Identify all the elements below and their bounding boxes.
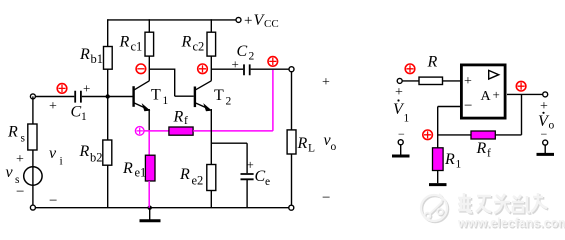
svg-text:b1: b1 (91, 52, 104, 66)
svg-text:R: R (476, 140, 487, 157)
label plus Ce (247, 157, 254, 172)
svg-text:−: − (464, 98, 472, 114)
svg-text:1: 1 (81, 111, 87, 123)
svg-text:L: L (308, 143, 315, 155)
svg-text:+: + (464, 74, 472, 89)
svg-text:R: R (181, 34, 192, 51)
node VCC terminal (236, 17, 241, 22)
label plus V1 (395, 85, 403, 100)
wire top supply rail (108, 19, 236, 21)
svg-text:R: R (119, 34, 130, 51)
wire Rb1 branch top (107, 19, 109, 46)
wire Rc1 bottom to T1 collector (148, 56, 150, 81)
label Rs (7, 124, 26, 145)
svg-text:f: f (487, 148, 491, 160)
wire R1 to ground (437, 171, 439, 184)
svg-text:www.elecfans.com: www.elecfans.com (457, 216, 565, 230)
label Rc2 (181, 34, 205, 54)
svg-text:−: − (322, 190, 330, 206)
wire input drop to Rs (32, 96, 34, 124)
svg-text:c2: c2 (193, 40, 205, 54)
svg-text:s: s (21, 133, 26, 145)
svg-text:+: + (16, 152, 24, 167)
resistor RL (287, 130, 296, 154)
source vs circle (24, 167, 42, 185)
svg-text:−: − (541, 127, 548, 141)
svg-text:o: o (331, 141, 337, 153)
resistor Rf right (magenta) (471, 131, 495, 139)
resistor Rs (28, 124, 37, 150)
wire minus input to junction (438, 107, 460, 148)
transistor T1 (134, 81, 150, 111)
label R1 (444, 151, 462, 171)
svg-text:+: + (247, 157, 254, 172)
wire T1 emitter down (148, 109, 150, 131)
svg-text:v: v (49, 145, 57, 162)
wire Rc2 bottom to T2 collector (210, 56, 212, 81)
svg-text:b2: b2 (90, 151, 103, 165)
wire Rf to output (495, 94, 521, 134)
svg-text:c1: c1 (131, 40, 143, 54)
label plus op-amp input (464, 74, 472, 89)
wire Rc2 branch top (210, 19, 212, 32)
ground symbol left (140, 208, 161, 221)
label C1 (71, 104, 88, 124)
ground symbol R1 (429, 183, 447, 186)
wire Ce to rail (246, 179, 248, 207)
wire output line from collector to C2 (211, 68, 243, 70)
wire Rf to output node (magenta) (193, 70, 273, 131)
resistor Rc1 (145, 32, 154, 56)
svg-text:+: + (540, 99, 548, 114)
wire C2 to output terminal (251, 68, 289, 70)
resistor Rc2 (207, 32, 216, 56)
wire feedback emitter to Rf (magenta) (144, 130, 169, 132)
node input terminal (30, 94, 35, 99)
svg-text:+: + (232, 57, 239, 72)
svg-text:R: R (79, 143, 90, 160)
wire Re2 top segment (211, 142, 247, 144)
label Rf left (magenta) (173, 109, 189, 128)
op-amp triangle symbol (489, 70, 499, 79)
annotation phase plus at R1 junction (423, 130, 433, 140)
svg-text:+: + (322, 75, 330, 90)
resistor Re1 (magenta) (145, 155, 155, 181)
label Vo (538, 112, 555, 132)
resistor Rf left (magenta) (169, 127, 193, 135)
capacitor C2 (244, 64, 250, 75)
capacitor Ce (241, 174, 254, 179)
label plus vs (16, 152, 24, 167)
node Vo terminal (543, 92, 548, 97)
label minus op-amp input (464, 98, 472, 114)
wire op-amp output (507, 93, 543, 95)
label plus C1 right (83, 81, 90, 96)
svg-text:o: o (549, 120, 555, 132)
svg-text:−: − (49, 193, 57, 209)
wire V1 to R (402, 80, 419, 82)
label vs (6, 164, 21, 186)
svg-text:−: − (16, 184, 24, 200)
node output bottom terminal (289, 205, 294, 210)
watermark chinese text (458, 193, 548, 214)
wire T2 emitter down to rail (210, 109, 212, 208)
svg-text:v: v (6, 164, 14, 181)
svg-text:2: 2 (226, 96, 232, 108)
node output terminal (289, 67, 294, 72)
node base junction dot (106, 94, 110, 98)
svg-text:R: R (297, 135, 308, 152)
node V1 bottom terminal (398, 140, 403, 145)
svg-text:C: C (71, 104, 82, 121)
svg-text:CC: CC (264, 18, 279, 30)
label plus input (49, 99, 57, 114)
resistor Rb2 (103, 140, 112, 165)
svg-text:1: 1 (404, 113, 410, 125)
wire Ce branch top (246, 143, 248, 173)
label RL (297, 135, 316, 155)
wire RL branch (291, 72, 293, 130)
label V1 (393, 99, 410, 124)
annotation phase plus at T2 collector (198, 64, 208, 74)
label T2 (214, 87, 232, 108)
svg-text:e1: e1 (135, 166, 147, 180)
wire R to op-amp (443, 80, 461, 82)
label C2 (237, 43, 255, 63)
svg-text:A: A (481, 89, 492, 104)
label Rb1 (79, 46, 103, 66)
label plus op-amp output (493, 87, 500, 102)
resistor R (419, 77, 443, 84)
svg-text:1: 1 (456, 159, 462, 171)
wire feedback junction to Rf (438, 134, 471, 136)
svg-text:R: R (7, 124, 18, 141)
wire RL to bottom terminal (291, 154, 293, 205)
label A (481, 89, 492, 104)
svg-text:−: − (398, 127, 405, 141)
wire collector link to T2 base (149, 69, 193, 97)
label minus V1 (398, 127, 405, 141)
wire Rs to vs (32, 150, 34, 205)
node emitter rail junction dot (148, 206, 152, 210)
wire input to C1 (36, 96, 75, 98)
label R (427, 54, 438, 71)
svg-text:+: + (83, 81, 90, 96)
label minus vi (49, 193, 57, 209)
label +VCC (244, 12, 279, 30)
svg-text:C: C (255, 168, 266, 185)
svg-text:R: R (79, 46, 90, 63)
transistor T2 (195, 81, 211, 111)
node Vo bottom terminal (543, 140, 548, 145)
annotation phase plus at op-amp output (516, 81, 526, 91)
annotation phase plus at emitter (magenta) (135, 127, 144, 136)
svg-text:2: 2 (249, 51, 255, 63)
wire Rb2 bottom to ground rail (107, 165, 109, 208)
resistor Rb1 (104, 47, 113, 70)
annotation phase plus at C1 (57, 84, 67, 94)
label T1 (151, 87, 169, 108)
svg-text:R: R (122, 160, 133, 177)
wire Rb1 bottom to base node (107, 69, 109, 140)
svg-text:+: + (244, 13, 252, 29)
annotation phase minus at T1 collector (136, 64, 146, 74)
svg-text:1: 1 (163, 95, 169, 107)
node input bottom terminal (30, 205, 35, 210)
svg-text:i: i (60, 156, 63, 168)
svg-text:R: R (173, 109, 184, 126)
label Ce (255, 168, 271, 188)
wire bottom ground rail (36, 207, 289, 209)
svg-text:R: R (427, 54, 438, 71)
watermark url text (457, 216, 565, 231)
svg-text:+: + (49, 99, 57, 114)
svg-text:R: R (179, 166, 190, 183)
ground symbol V1 (392, 145, 410, 156)
label plus C2 (232, 57, 239, 72)
node V1 input terminal (397, 78, 402, 83)
label Re2 (179, 166, 203, 188)
wire Re1 to rail (magenta) (148, 181, 150, 208)
svg-text:T: T (151, 87, 161, 104)
watermark logo circle (421, 194, 448, 222)
wire C1 to base node (82, 96, 133, 98)
annotation phase plus at V1 input (405, 64, 415, 74)
label minus vo (322, 190, 330, 206)
label Rc1 (119, 34, 143, 54)
wire Rc1 branch top (148, 19, 150, 32)
svg-text:R: R (444, 151, 455, 168)
label vo (324, 132, 337, 153)
svg-text:f: f (184, 115, 188, 127)
label Rb2 (79, 143, 103, 165)
svg-text:+: + (395, 85, 403, 100)
wire Re1 branch (magenta) (148, 130, 150, 155)
annotation phase plus at output (268, 57, 278, 67)
resistor R1 (magenta) (433, 148, 444, 171)
label plus Vo (540, 99, 548, 114)
svg-text:e: e (265, 176, 270, 188)
label vi (49, 145, 63, 168)
label Re1 (magenta) (122, 160, 146, 180)
ground symbol Vo (537, 145, 555, 154)
label minus Vo (541, 127, 548, 141)
label plus vo (322, 75, 330, 90)
svg-text:e2: e2 (192, 174, 204, 188)
svg-text:T: T (214, 87, 224, 104)
op-amp A box (461, 65, 505, 118)
capacitor C1 (75, 91, 81, 103)
label minus vs (16, 184, 24, 200)
resistor Re2 (207, 165, 216, 191)
svg-text:+: + (493, 87, 500, 102)
label Rf right (476, 140, 492, 160)
